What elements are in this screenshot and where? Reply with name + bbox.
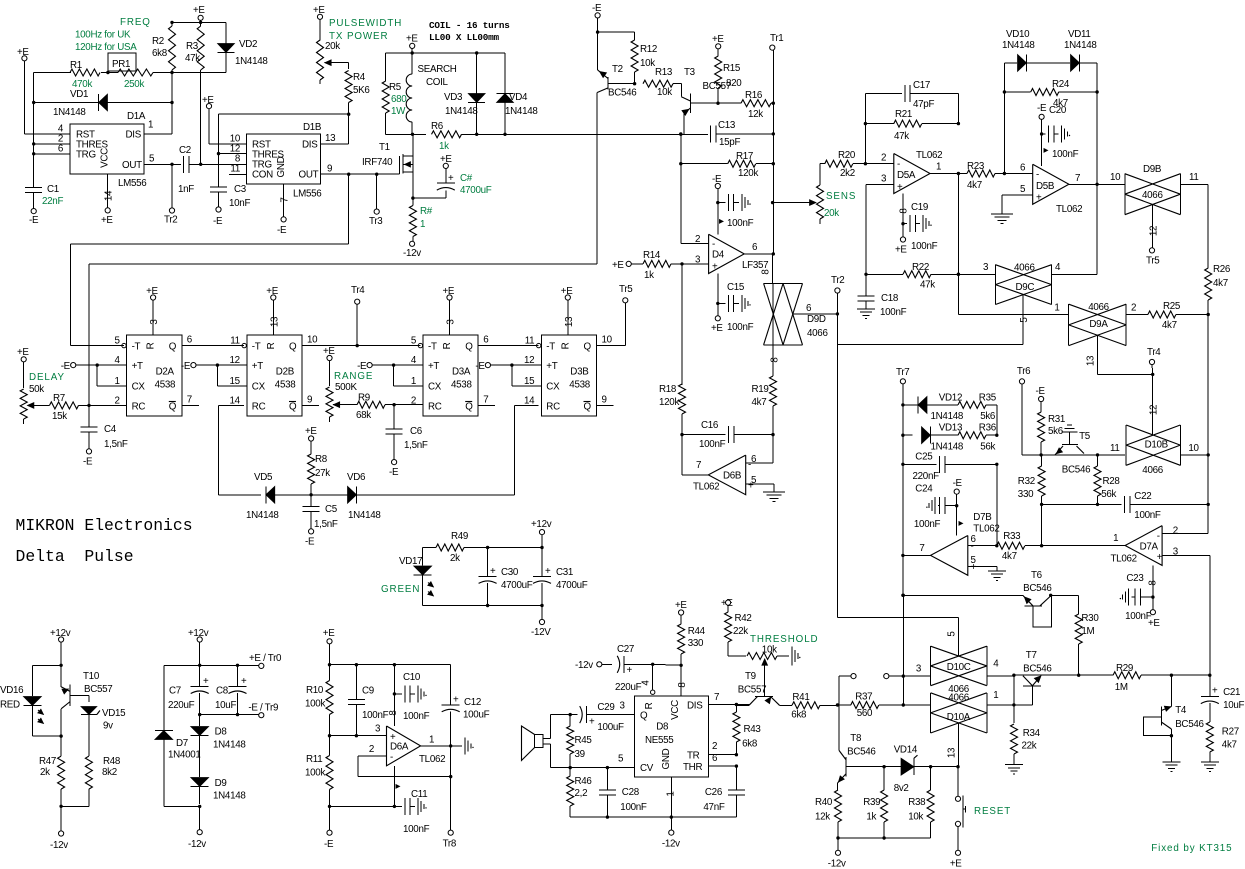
- capacitor C5: [303, 495, 338, 548]
- svg-text:5: 5: [947, 631, 958, 637]
- power terminal +12v (C30): [531, 519, 552, 548]
- svg-text:GND: GND: [661, 748, 672, 769]
- capacitor C1: [25, 184, 63, 209]
- analog switch D10C 4066: [931, 646, 1000, 695]
- op-amp D7A TL062: [1111, 526, 1179, 566]
- transistor T6 BC546 (diode wired): [901, 570, 1052, 627]
- svg-text:100uF: 100uF: [463, 710, 490, 721]
- transistor T7 BC546: [1012, 650, 1052, 707]
- pin13 D10A stub: [947, 723, 960, 768]
- svg-text:2: 2: [369, 744, 374, 755]
- svg-text:C17: C17: [913, 80, 930, 91]
- svg-text:2k: 2k: [450, 553, 460, 564]
- power terminal -12v (C7): [188, 806, 206, 850]
- svg-text:-E: -E: [324, 839, 334, 850]
- svg-text:100nF: 100nF: [403, 711, 430, 722]
- svg-text:-T: -T: [252, 342, 261, 353]
- wire pin10 D10B: [1180, 453, 1210, 456]
- svg-text:-12v: -12v: [575, 660, 593, 671]
- svg-text:R45: R45: [575, 735, 593, 746]
- pin 7 GND to -E: [277, 184, 291, 236]
- svg-text:1N4148: 1N4148: [348, 510, 381, 521]
- svg-text:R#: R#: [420, 206, 433, 217]
- wire D3A Q to D3B -T: [478, 345, 539, 347]
- svg-text:5: 5: [1019, 317, 1030, 323]
- wire pin7 D6B: [682, 474, 708, 476]
- svg-text:CX: CX: [132, 382, 146, 393]
- svg-text:LL00 X LL00mm: LL00 X LL00mm: [429, 32, 500, 43]
- svg-text:VD17: VD17: [399, 556, 422, 567]
- svg-text:-E: -E: [953, 478, 963, 489]
- svg-text:-E / Tr9: -E / Tr9: [248, 703, 278, 714]
- Q-bar stub D2A: [182, 404, 199, 406]
- wire R6 right: [462, 133, 709, 136]
- svg-text:1N4148: 1N4148: [213, 791, 246, 802]
- wire pin4 D10C: [987, 675, 1014, 677]
- resistor R26: [1205, 264, 1231, 315]
- svg-text:-E: -E: [1037, 103, 1047, 114]
- capacitor C28: [599, 768, 647, 819]
- potentiometer DELAY 50k: [17, 347, 65, 424]
- svg-text:-E: -E: [83, 457, 93, 468]
- svg-text:100nF: 100nF: [914, 519, 941, 530]
- svg-text:D3A: D3A: [452, 367, 471, 378]
- wire pin7 D5B: [1069, 172, 1125, 186]
- svg-text:10: 10: [1188, 443, 1199, 454]
- svg-text:12: 12: [229, 355, 239, 366]
- wire top rail D6A: [330, 663, 451, 666]
- wire pin4 D9C: [1052, 273, 1098, 275]
- analog switch D9D 4066: [764, 284, 829, 345]
- power terminal +E (D1B RST): [202, 95, 247, 144]
- svg-text:T10: T10: [83, 671, 100, 682]
- svg-text:1N4148: 1N4148: [931, 442, 964, 453]
- svg-text:10uF: 10uF: [1223, 700, 1244, 711]
- svg-text:6: 6: [58, 144, 64, 155]
- svg-text:120k: 120k: [738, 168, 758, 179]
- svg-text:BC557: BC557: [738, 685, 766, 696]
- capacitor C16: [680, 420, 774, 450]
- pin2 TR: [709, 754, 737, 756]
- svg-text:5k6: 5k6: [1048, 426, 1064, 437]
- svg-text:BC546: BC546: [847, 747, 876, 758]
- svg-text:-E: -E: [389, 467, 399, 478]
- svg-text:8v2: 8v2: [894, 783, 909, 794]
- svg-text:LF357: LF357: [742, 260, 768, 271]
- resistor R15: [712, 34, 742, 103]
- op-amp D5B TL062: [1020, 162, 1082, 215]
- svg-text:1M: 1M: [1115, 682, 1128, 693]
- transistor T5 BC546: [1055, 425, 1091, 476]
- potentiometer RANGE 500K: [323, 346, 373, 422]
- svg-text:220uF: 220uF: [168, 700, 195, 711]
- svg-text:9v: 9v: [103, 721, 113, 732]
- svg-text:1nF: 1nF: [178, 184, 194, 195]
- svg-text:+T: +T: [252, 361, 263, 372]
- IC D3A 4538: [411, 335, 489, 416]
- svg-text:39: 39: [575, 749, 585, 760]
- terminal Tr7: [896, 367, 909, 594]
- svg-text:COIL: COIL: [426, 77, 449, 88]
- svg-text:+E: +E: [305, 426, 317, 437]
- svg-text:7: 7: [696, 460, 701, 471]
- resistor R40: [815, 790, 842, 840]
- svg-text:Tr1: Tr1: [770, 33, 783, 44]
- svg-text:R16: R16: [745, 90, 763, 101]
- capacitor C30: [479, 548, 533, 606]
- diode VD13: [901, 423, 964, 453]
- svg-text:11: 11: [525, 336, 535, 347]
- resistor R19: [752, 373, 777, 434]
- svg-text:4: 4: [411, 355, 417, 366]
- svg-text:R46: R46: [575, 776, 593, 787]
- svg-text:C28: C28: [622, 787, 640, 798]
- transistor T1 IRF740 (MOSFET): [362, 134, 413, 198]
- pin 11 CON stub: [229, 173, 247, 175]
- svg-text:-12v: -12v: [188, 839, 206, 850]
- svg-text:1,5nF: 1,5nF: [314, 519, 338, 530]
- terminal Tr1: [770, 33, 784, 164]
- svg-text:4k7: 4k7: [1222, 740, 1237, 751]
- capacitor C3: [210, 184, 250, 227]
- resistor R23: [967, 161, 1033, 191]
- svg-text:R15: R15: [723, 63, 741, 74]
- svg-text:R34: R34: [1023, 728, 1041, 739]
- svg-text:+T: +T: [546, 361, 557, 372]
- wire bottom rail NE555: [570, 815, 736, 818]
- svg-text:R: R: [266, 342, 277, 349]
- svg-text:R32: R32: [1018, 476, 1035, 487]
- svg-text:100k: 100k: [305, 699, 325, 710]
- resistor R27: [1201, 722, 1239, 772]
- wire D5A pin2 node up: [865, 93, 893, 163]
- svg-text:2k: 2k: [40, 767, 50, 778]
- svg-text:RED: RED: [0, 700, 20, 711]
- svg-text:FREQ: FREQ: [120, 17, 151, 28]
- capacitor C29: [569, 702, 635, 733]
- wire R2 junction to D1B: [171, 74, 173, 103]
- svg-text:D4: D4: [712, 250, 725, 261]
- analog switch D9C 4066: [995, 262, 1061, 305]
- svg-text:7: 7: [483, 394, 488, 405]
- diode VD4: [497, 53, 539, 134]
- svg-text:330: 330: [688, 638, 704, 649]
- svg-text:+E: +E: [101, 215, 113, 226]
- wire T5 line (pin11): [1023, 443, 1125, 457]
- svg-text:-E: -E: [305, 537, 315, 548]
- capacitor C24: [914, 478, 963, 530]
- svg-text:R18: R18: [659, 384, 677, 395]
- resistor R12: [631, 40, 657, 84]
- terminal Tr8: [443, 830, 457, 849]
- capacitor C4: [81, 405, 128, 467]
- svg-text:BC546: BC546: [1023, 664, 1052, 675]
- svg-text:6: 6: [752, 242, 758, 253]
- svg-text:6k8: 6k8: [742, 739, 758, 750]
- svg-text:68k: 68k: [356, 410, 371, 421]
- svg-text:330: 330: [1018, 489, 1034, 500]
- wire pin6 D7B: [968, 464, 999, 547]
- svg-text:4538: 4538: [451, 380, 472, 391]
- svg-text:2: 2: [114, 395, 119, 406]
- svg-text:C11: C11: [411, 789, 427, 800]
- svg-text:5K6: 5K6: [353, 85, 370, 96]
- svg-text:+: +: [545, 566, 551, 577]
- svg-text:+: +: [712, 262, 718, 273]
- svg-text:R: R: [146, 342, 157, 349]
- svg-text:Q: Q: [169, 342, 177, 353]
- svg-text:TL062: TL062: [1056, 204, 1082, 215]
- svg-text:Tr5: Tr5: [619, 284, 633, 295]
- -E feed +T/CX D2A: [61, 361, 127, 386]
- svg-text:D9C: D9C: [1016, 282, 1035, 293]
- capacitor C22: [1042, 491, 1209, 521]
- svg-text:1: 1: [666, 791, 677, 796]
- svg-text:560: 560: [857, 708, 873, 719]
- power terminal +12v (T10): [50, 628, 71, 687]
- svg-text:47k: 47k: [920, 280, 935, 291]
- resistor R38: [908, 767, 934, 838]
- svg-text:15pF: 15pF: [719, 137, 740, 148]
- svg-text:Q: Q: [289, 342, 297, 353]
- svg-text:C6: C6: [410, 426, 423, 437]
- resistor R8: [305, 426, 330, 495]
- capacitor C31: [533, 548, 588, 606]
- -E feed +T/CX D2B: [181, 361, 247, 386]
- svg-text:3: 3: [446, 319, 457, 325]
- terminal Tr4 (rx): [1147, 347, 1161, 374]
- capacitor C8: [215, 665, 247, 714]
- svg-text:100k: 100k: [305, 768, 325, 779]
- wire DIS pin13: [321, 114, 349, 144]
- svg-text:TL062: TL062: [916, 150, 942, 161]
- svg-text:8: 8: [770, 357, 781, 363]
- svg-text:C4: C4: [104, 424, 117, 435]
- svg-text:4066: 4066: [1014, 263, 1035, 274]
- terminal Tr2 (receive): [831, 275, 844, 344]
- potentiometer SENS 20k: [773, 164, 856, 224]
- power terminal -12V (C31): [531, 606, 551, 639]
- pin1 GND to -12v: [662, 777, 680, 850]
- svg-text:R26: R26: [1213, 264, 1231, 275]
- svg-text:1: 1: [429, 735, 434, 746]
- svg-text:VD14: VD14: [894, 745, 918, 756]
- svg-text:100nF: 100nF: [911, 241, 938, 252]
- svg-text:+: +: [627, 665, 633, 676]
- svg-text:+: +: [1212, 686, 1218, 697]
- svg-text:100nF: 100nF: [362, 710, 389, 721]
- wire THRES pin2: [32, 142, 70, 145]
- svg-text:PULSEWIDTH: PULSEWIDTH: [329, 18, 402, 29]
- zener VD15 9v: [81, 707, 126, 741]
- svg-text:3: 3: [983, 262, 989, 273]
- resistor R33: [997, 531, 1044, 562]
- svg-text:R5: R5: [389, 82, 402, 93]
- svg-text:RC: RC: [252, 401, 266, 412]
- svg-text:-: -: [712, 239, 715, 250]
- svg-text:10nF: 10nF: [229, 198, 250, 209]
- capacitor C7: [168, 665, 209, 714]
- capacitor C15: [711, 274, 754, 335]
- svg-text:R: R: [442, 342, 453, 349]
- svg-text:T4: T4: [1175, 705, 1187, 716]
- svg-text:Tr7: Tr7: [896, 367, 909, 378]
- svg-text:4k7: 4k7: [752, 397, 767, 408]
- wire pin6 out: [744, 253, 773, 255]
- jumper terminals (pin3): [839, 664, 931, 706]
- svg-text:50k: 50k: [29, 384, 44, 395]
- label COIL: [429, 20, 510, 43]
- svg-text:R25: R25: [1163, 301, 1181, 312]
- resistor R10: [305, 665, 333, 738]
- svg-text:56k: 56k: [1101, 489, 1116, 500]
- resistor R31: [1036, 386, 1066, 457]
- svg-text:THR: THR: [683, 762, 702, 773]
- svg-text:1k: 1k: [439, 141, 449, 152]
- svg-text:-: -: [1036, 170, 1039, 181]
- svg-text:R13: R13: [655, 67, 673, 78]
- svg-text:9: 9: [602, 394, 607, 405]
- svg-text:-E: -E: [1036, 386, 1046, 397]
- svg-text:13: 13: [947, 747, 958, 758]
- op-amp D4 LF357: [695, 234, 768, 274]
- svg-text:D9A: D9A: [1089, 319, 1108, 330]
- wire RST feed: [24, 133, 70, 135]
- transistor T3 BC557: [679, 67, 731, 136]
- resistor R13: [643, 67, 681, 98]
- capacitor C14: [712, 174, 754, 234]
- pin7 DIS: [709, 703, 750, 706]
- svg-text:5: 5: [149, 153, 155, 164]
- svg-text:C21: C21: [1223, 687, 1240, 698]
- svg-text:C31: C31: [556, 567, 573, 578]
- svg-text:C24: C24: [915, 484, 933, 495]
- svg-text:C25: C25: [915, 452, 933, 463]
- svg-text:22nF: 22nF: [42, 196, 63, 207]
- terminal Tr5 (D3B Q): [597, 284, 634, 346]
- svg-text:1N4148: 1N4148: [235, 56, 268, 67]
- svg-text:BC546: BC546: [608, 88, 637, 99]
- resistor R2: [152, 22, 176, 74]
- svg-text:D6B: D6B: [723, 471, 742, 482]
- wire pin3 branch down: [681, 264, 683, 385]
- svg-text:R27: R27: [1222, 727, 1239, 738]
- op-amp D5A TL062: [881, 150, 942, 194]
- svg-text:+: +: [589, 717, 595, 728]
- svg-text:13: 13: [1086, 355, 1097, 366]
- svg-text:+E: +E: [950, 859, 962, 869]
- svg-text:R21: R21: [895, 109, 912, 120]
- transistor T10 BC557: [61, 671, 112, 736]
- svg-text:C3: C3: [234, 184, 247, 195]
- svg-text:14: 14: [229, 395, 240, 406]
- resistor R45: [567, 715, 593, 770]
- svg-text:12k: 12k: [748, 109, 763, 120]
- svg-text:2,2: 2,2: [575, 788, 588, 799]
- svg-text:1k: 1k: [644, 270, 654, 281]
- pin6 D9D out to Tr2: [793, 313, 838, 315]
- svg-text:T5: T5: [1079, 431, 1091, 442]
- wire coil top rail: [386, 51, 505, 54]
- svg-text:Tr4: Tr4: [351, 285, 365, 296]
- svg-text:+T: +T: [428, 361, 439, 372]
- resistor R32: [1018, 455, 1045, 546]
- wire DIS pin1 to R2: [144, 103, 172, 134]
- potentiometer 20k (pulsewidth): [313, 5, 349, 84]
- svg-text:C23: C23: [1126, 573, 1144, 584]
- diode VD2: [170, 21, 268, 75]
- transistor T8 BC546: [838, 705, 877, 790]
- -T bubble D3A: [418, 343, 422, 347]
- svg-text:15: 15: [524, 376, 535, 387]
- wire OUT pin5: [144, 163, 181, 166]
- svg-text:C15: C15: [727, 282, 745, 293]
- svg-text:C1: C1: [47, 184, 59, 195]
- resistor R36: [944, 423, 999, 453]
- svg-text:10k: 10k: [908, 812, 923, 823]
- wire T7/R29 line: [1014, 674, 1113, 676]
- svg-text:+: +: [241, 676, 247, 687]
- svg-text:6: 6: [806, 303, 812, 314]
- svg-text:-12V: -12V: [531, 627, 551, 638]
- svg-text:3: 3: [149, 319, 160, 325]
- resistor R43: [733, 705, 762, 757]
- svg-text:120k: 120k: [659, 397, 679, 408]
- power +E for D2B: [266, 286, 280, 335]
- svg-text:▸: ▸: [959, 518, 964, 529]
- svg-text:6: 6: [187, 335, 193, 346]
- wire pin6 D6B: [746, 435, 773, 463]
- pin12 D10B from Tr4: [1149, 373, 1160, 436]
- analog switch D9A 4066: [1054, 302, 1136, 346]
- svg-text:+E: +E: [193, 5, 205, 16]
- svg-text:-T: -T: [132, 342, 141, 353]
- wire pin3 D6A: [330, 724, 387, 736]
- capacitor C21: [1201, 675, 1245, 722]
- svg-text:4066: 4066: [1142, 465, 1163, 476]
- power terminal -E (T2): [592, 3, 602, 70]
- svg-text:-E: -E: [61, 361, 71, 372]
- wire bottom rail D6A: [330, 805, 395, 807]
- wire pin2: [681, 243, 709, 245]
- svg-text:LM556: LM556: [118, 178, 147, 189]
- resistor R30: [1051, 595, 1100, 677]
- wire D2A Q to D2B -T: [182, 345, 244, 347]
- label Fixed by KT315: [1151, 843, 1232, 854]
- svg-text:T1: T1: [379, 142, 390, 153]
- svg-text:NE555: NE555: [645, 735, 674, 746]
- svg-text:R19: R19: [752, 384, 769, 395]
- wire -E to R12: [598, 32, 635, 40]
- wire coil bottom rail: [386, 133, 426, 136]
- pin6 THR: [709, 764, 739, 767]
- svg-text:C18: C18: [881, 293, 899, 304]
- svg-text:D5A: D5A: [897, 170, 916, 181]
- wire pin11 D9B to R26: [1180, 184, 1208, 268]
- capacitor C12: [442, 665, 490, 830]
- svg-text:+E: +E: [612, 260, 624, 271]
- svg-text:3: 3: [619, 701, 625, 712]
- capacitor C18: [857, 274, 907, 318]
- resistor R3: [185, 22, 204, 164]
- svg-text:2: 2: [881, 153, 886, 164]
- svg-text:DELAY: DELAY: [29, 372, 65, 383]
- power terminal -12v (T10): [50, 806, 68, 851]
- power terminal +E (R10): [323, 628, 335, 666]
- svg-text:R14: R14: [643, 250, 661, 261]
- svg-text:12: 12: [1149, 226, 1160, 236]
- svg-text:T6: T6: [1031, 570, 1043, 581]
